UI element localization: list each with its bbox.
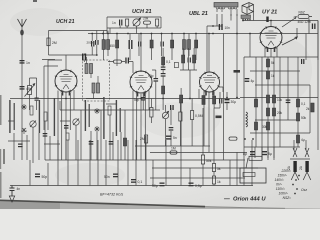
svg-text:1M: 1M: [171, 147, 176, 151]
IF transformer 2: [83, 57, 110, 101]
svg-text:450: 450: [110, 44, 116, 48]
capacitor bus 50n: [35, 174, 47, 180]
wire osc left vertical: [106, 17, 108, 34]
resistor T3 cathode: [213, 96, 216, 104]
svg-text:20k: 20k: [277, 111, 283, 115]
svg-text:— Orion 444 U: — Orion 444 U: [223, 197, 266, 203]
wire dropper diagonal a: [282, 17, 296, 27]
wire fuse top a: [293, 140, 295, 150]
ground symbol: [9, 186, 14, 203]
wire sel drop d: [273, 147, 275, 158]
junction dots bottom: [244, 138, 254, 140]
padder capacitor: [64, 125, 69, 129]
wire drop v153: [152, 160, 154, 186]
resistor right edge: [311, 103, 314, 112]
hanging row: resistor f: [195, 40, 198, 48]
wire speaker lead left: [242, 19, 244, 21]
terminal mark: [266, 17, 268, 23]
capacitor lc a: [18, 144, 23, 148]
resistor 50k vertical: [201, 155, 211, 164]
svg-text:BF=4732 Kc/s: BF=4732 Kc/s: [100, 193, 123, 197]
capacitor AF a0: [161, 67, 166, 71]
resistor osc grid: [126, 19, 129, 26]
wire otp primary lead: [231, 14, 237, 21]
svg-text:0V≈: 0V≈: [276, 183, 282, 187]
trimmer osc: [133, 18, 141, 26]
capacitor lc c: [89, 141, 94, 145]
svg-text:8μ: 8μ: [268, 152, 272, 156]
junction dots rail: [65, 20, 272, 100]
wire psu v250: [249, 34, 251, 58]
resistor det b: [193, 55, 196, 63]
svg-text:50p: 50p: [42, 175, 48, 179]
resistor mains dropper: [298, 11, 311, 24]
capacitor mid 0g: [104, 174, 118, 180]
wire psu v274: [273, 57, 275, 160]
resistor T3 bias dark: [202, 96, 205, 105]
resistor 2M grid leak: [47, 38, 57, 46]
capacitor 50p T2: [148, 74, 158, 82]
wire psu h71: [250, 70, 300, 72]
switch wafer mark A2: [21, 128, 27, 134]
coil osc A: [108, 106, 111, 115]
wire T1 pin drops: [58, 90, 74, 160]
capacitor 4u psu: [245, 78, 255, 83]
capacitor psu small a: [301, 59, 304, 64]
wire IF1 right vertical: [104, 31, 109, 40]
tube UBL21: [199, 72, 220, 96]
wire drop v252: [251, 140, 253, 186]
wire psu h57: [244, 56, 318, 58]
capacitor mains: [312, 24, 316, 30]
svg-text:4μ: 4μ: [301, 138, 305, 142]
resistor af hook: [174, 63, 178, 68]
resistor lc e: [123, 138, 126, 146]
wire T3 plate lead: [207, 14, 222, 72]
hanging row: IF3 coil pair: [183, 40, 191, 50]
resistor 1M lower: [170, 147, 177, 155]
coil ant A: [30, 106, 33, 115]
wire drop v190: [189, 168, 191, 186]
wire stage1 box top: [49, 30, 108, 32]
wire right border: [317, 21, 319, 151]
svg-text:0,1: 0,1: [301, 102, 306, 106]
PSU resistor ladder: [254, 59, 299, 143]
wire T2 bottom lead: [140, 94, 142, 160]
wire left cluster verticals: [14, 101, 125, 163]
wire psu h97: [240, 97, 318, 99]
svg-text:8μ: 8μ: [243, 152, 247, 156]
wire T4 heater leads: [265, 47, 277, 58]
wire T1 plate lead: [65, 55, 67, 71]
svg-text:100V≈: 100V≈: [278, 192, 288, 196]
hanging row: IF1 coil pair: [102, 40, 110, 50]
wire antenna lead: [21, 27, 23, 108]
wire section vertical: [223, 34, 225, 161]
resistor T2 grid stopper: [114, 60, 122, 63]
variable capacitor B: [73, 119, 79, 126]
wire fuse top b: [305, 140, 307, 150]
wire psu h147: [244, 146, 300, 148]
wire IF1 left vertical: [96, 31, 98, 56]
capacitor det: [188, 58, 191, 63]
resistor 20k: [143, 17, 151, 25]
switch wafer mark B1: [94, 108, 100, 114]
volume pot: [162, 111, 168, 118]
wire x156: [155, 70, 157, 99]
wire x181: [180, 88, 182, 146]
svg-text:50k: 50k: [301, 116, 307, 120]
svg-text:30μ: 30μ: [231, 100, 237, 104]
wire hang drops: [92, 34, 196, 67]
svg-text:4μ: 4μ: [251, 79, 255, 83]
svg-text:UCH 21: UCH 21: [132, 9, 152, 15]
wire psu v298: [297, 57, 299, 147]
switch wafer mark A1: [21, 104, 27, 110]
wire drop v106: [105, 140, 107, 186]
svg-text:1k: 1k: [217, 180, 221, 184]
wire af extra: [179, 103, 181, 146]
wire fuse join: [290, 158, 310, 160]
mains ballast box: [240, 168, 266, 183]
fuse b: [299, 148, 311, 180]
hanging row: resistor a: [116, 40, 119, 48]
svg-text:2M: 2M: [52, 41, 57, 45]
wire rectifier cathode rail: [243, 20, 318, 22]
capacitor T3 cathode: [219, 99, 222, 104]
voltage list: [274, 169, 291, 200]
wire drop v90: [89, 140, 91, 186]
wire psu v262: [261, 57, 263, 160]
resistor ballast h: [249, 156, 262, 160]
wire box lead: [246, 158, 248, 168]
wire 50p leads: [142, 93, 144, 110]
wire osc right vertical: [160, 17, 162, 28]
capacitor T2 grid: [125, 58, 129, 64]
hanging row: capacitor b: [138, 42, 141, 47]
left edge marks: [3, 149, 5, 164]
wire AF chain vertical: [162, 48, 164, 110]
hanging row: capacitor d: [161, 42, 164, 47]
wire drop v181: [180, 146, 182, 186]
page bottom edge shadow: [0, 200, 320, 209]
svg-text:140V≈: 140V≈: [274, 178, 284, 182]
paper mottle: [10, 8, 312, 187]
wire lower rail ab: [150, 152, 247, 154]
svg-text:0,1: 0,1: [166, 60, 171, 64]
wire psu v306: [305, 34, 307, 61]
wire osc stubs: [110, 24, 157, 33]
resistor osc right: [156, 19, 159, 26]
PSU electrolytic 8u a: [243, 151, 255, 156]
wire sel drop a: [254, 147, 256, 158]
wire lower rail d: [150, 177, 245, 179]
svg-text:110V≈: 110V≈: [276, 187, 285, 191]
wire sel drop b: [261, 147, 263, 158]
svg-text:5k: 5k: [217, 167, 221, 171]
svg-text:Osz: Osz: [301, 188, 307, 192]
band switch section B frame bars: [85, 97, 121, 139]
wire drop v166: [165, 140, 167, 186]
wire drop v48: [47, 163, 49, 186]
svg-text:NSZ: NSZ: [299, 11, 305, 15]
resistor AVC: [180, 95, 183, 103]
svg-text:4n: 4n: [17, 187, 21, 191]
resistor pot chain: [150, 108, 153, 118]
capacitor AF a: [161, 73, 166, 77]
wire T2 grid: [108, 62, 133, 74]
fuse a: [287, 148, 299, 180]
resistor det a: [182, 55, 185, 63]
capacitor lc b: [43, 133, 48, 137]
output transformer: [214, 3, 238, 17]
wire mid AVC rail: [30, 98, 240, 100]
svg-text:2k: 2k: [306, 107, 310, 111]
wire lower rail b: [45, 159, 245, 161]
wire drop v78: [77, 140, 79, 186]
wire L1 leads: [30, 78, 37, 110]
wire dropper diagonal b: [282, 28, 297, 45]
variable capacitor A: [30, 121, 36, 128]
switch wafer mark B2: [94, 126, 100, 132]
voltage selector dots: [292, 170, 300, 194]
capacitor 50u bottom: [152, 183, 165, 189]
wire psu v256: [255, 57, 257, 147]
svg-text:200p: 200p: [87, 41, 94, 45]
capacitor pot bottom: [169, 127, 174, 131]
wire left cluster horizontals: [8, 99, 116, 145]
band switch section A frame bars: [9, 98, 55, 136]
wire T3 cathode: [204, 91, 220, 153]
svg-text:50p: 50p: [134, 98, 140, 102]
svg-text:UY 21: UY 21: [262, 10, 277, 16]
capacitor 50p lower: [134, 97, 145, 102]
resistor AF b: [162, 86, 165, 94]
svg-text:10n: 10n: [225, 26, 231, 30]
hanging row: resistor c: [150, 40, 153, 48]
svg-text:30k: 30k: [262, 125, 268, 129]
wire drop v244: [243, 140, 245, 186]
wire T3 top lead: [208, 34, 210, 73]
wire drop v136: [135, 140, 137, 186]
coil ant B: [44, 112, 47, 121]
capacitor pot top: [170, 105, 174, 110]
svg-text:50k: 50k: [206, 159, 212, 163]
svg-text:50μ: 50μ: [152, 184, 158, 188]
PSU electrolytic 8u b: [262, 151, 272, 156]
wire nsz right lead: [309, 17, 312, 34]
wire psu v310: [309, 85, 311, 133]
resistor AF coupling a: [162, 57, 171, 65]
wire sel drop c: [267, 147, 269, 158]
wire screen feed vertical: [236, 21, 238, 98]
hanging row: tall capacitor: [129, 40, 133, 49]
capacitor lc d: [109, 141, 114, 145]
hanging row: capacitor 200p u: [91, 41, 94, 47]
wire drop v203: [202, 108, 204, 186]
resistor 1k b: [212, 176, 220, 184]
svg-text:50p: 50p: [148, 74, 154, 78]
capacitor antenna series 1: [20, 60, 30, 65]
PSU ladder labels: [262, 61, 310, 142]
wire psu v288: [287, 57, 289, 120]
left edge mark mid: [0, 95, 2, 125]
resistor screen dark h: [234, 70, 241, 73]
svg-text:20k: 20k: [143, 17, 149, 21]
wire drop v68: [67, 140, 69, 186]
svg-text:0,1: 0,1: [138, 180, 143, 184]
wire bottom bus: [10, 185, 253, 187]
svg-text:0,5μ: 0,5μ: [195, 184, 202, 188]
junction dot box bottom: [96, 54, 98, 56]
wire drop v214: [213, 153, 215, 186]
coil tuned L1 with arrow: [25, 84, 35, 97]
ballast inner resistor: [243, 173, 255, 177]
capacitor 0g lower mid: [189, 183, 202, 189]
capacitor electro 30u: [225, 99, 237, 104]
capacitor 01u bottom: [131, 179, 142, 184]
wire drop v118: [117, 140, 119, 186]
wire lower rail a: [135, 145, 210, 147]
wire det cluster: [180, 48, 197, 99]
wire mid rail lower: [60, 109, 160, 111]
wire drop v128: [127, 140, 129, 186]
svg-text:10k: 10k: [277, 98, 283, 102]
svg-text:NSZ≈: NSZ≈: [283, 196, 292, 200]
svg-text:1n: 1n: [112, 21, 116, 25]
resistor bottom right h: [229, 137, 237, 140]
resistor 2M lower left: [140, 135, 148, 143]
wire T1 bottom lead: [65, 92, 67, 160]
wire speaker lead right: [253, 12, 255, 21]
capacitor plate 10n: [219, 24, 230, 30]
wire T4 cathode lead: [270, 48, 272, 57]
wire stage1 box left vertical: [48, 31, 50, 56]
wire T2 plate lead: [140, 34, 142, 73]
wire drop v30: [29, 160, 31, 186]
tube UCH21 a: [55, 70, 77, 96]
resistor 05M: [191, 111, 203, 120]
resistor 1k a: [212, 164, 220, 172]
wire T1 grid bracket: [44, 60, 62, 130]
wire drop v237: [236, 152, 238, 186]
speaker box: [242, 3, 254, 15]
wire stage1 box bottom: [42, 55, 96, 60]
wire psu v280: [279, 57, 281, 147]
wire T4 anode lead: [270, 21, 272, 27]
resistor tone: [66, 133, 69, 140]
top edge tick: [33, 0, 37, 2]
wire drop v230: [229, 160, 231, 186]
wire HT rail top: [88, 33, 318, 35]
capacitor 200p plates: [95, 40, 99, 45]
wire x192: [191, 99, 193, 147]
capacitor osc 1n: [112, 20, 122, 26]
svg-text:UBL 21: UBL 21: [189, 11, 208, 17]
wire drop v146: [145, 136, 147, 186]
tube UCH21 b: [130, 71, 152, 97]
junction dot plate: [212, 25, 214, 27]
wire psu h85: [255, 84, 310, 86]
tube UY21 rectifier: [260, 26, 282, 52]
capacitor antenna series 2: [20, 86, 32, 91]
wire drop v58: [57, 140, 59, 186]
resistor dark h mid: [216, 116, 222, 119]
wire psu v268: [267, 57, 269, 160]
wire osc bottom rail: [107, 27, 161, 29]
svg-text:150V≈: 150V≈: [277, 174, 287, 178]
PSU filter choke: [246, 112, 248, 127]
wire psu h133: [250, 132, 310, 134]
antenna: [18, 19, 27, 36]
resistor af extra: [179, 112, 182, 121]
wire pot chain: [150, 99, 152, 124]
wire grid cap lead: [83, 54, 85, 63]
wire x156 top: [152, 70, 156, 110]
wire psu h120: [255, 119, 300, 121]
wire right edge vertical: [317, 21, 319, 61]
speaker coil dots: [242, 19, 250, 20]
wire psu v244: [243, 57, 245, 140]
wire T2 pin drops: [133, 91, 149, 161]
wire osc top rail: [107, 16, 161, 18]
svg-text:1n: 1n: [26, 61, 30, 65]
speaker output coil: [241, 15, 251, 19]
wire T3 bottom lead: [208, 92, 210, 152]
capacitor grid thick: [82, 54, 86, 61]
capacitor L1 parallel: [35, 98, 39, 101]
svg-text:220V≈: 220V≈: [280, 169, 291, 173]
wire pot leads: [166, 105, 172, 146]
hanging row: resistor e: [171, 40, 174, 48]
wire lower rail c: [152, 167, 258, 169]
capacitor psu small b: [286, 100, 291, 104]
wire drop v98: [97, 140, 99, 186]
capacitor 555: [166, 136, 177, 141]
wire electro: [226, 92, 228, 110]
svg-text:2M: 2M: [140, 137, 145, 141]
wire T3 pin drops: [199, 87, 223, 99]
